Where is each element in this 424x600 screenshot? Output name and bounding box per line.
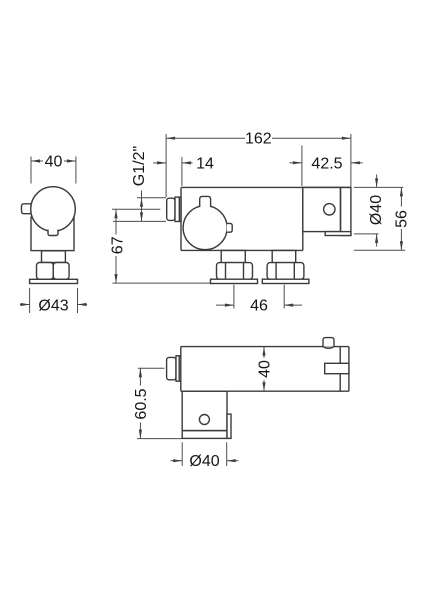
body [31,217,74,250]
dim Ø40 bottom arrows [171,459,239,462]
dim 162 extension lines [166,134,351,197]
dim 40 line and arrows [262,347,265,392]
body top edge [181,186,351,188]
body left edge [180,187,182,250]
body right inner edge [302,187,304,250]
right outlet flange [262,279,309,283]
body left edge [180,347,182,392]
dim 162 line and arrows [166,137,351,140]
handle right tab [227,223,232,232]
fitting ring [176,356,181,381]
handle top tab [200,196,211,207]
dim Ø40 bottom extension lines [182,442,227,466]
lower outlet hole [199,415,209,425]
fitting ring [175,197,181,221]
nut facet left [37,263,54,280]
right strip [341,187,351,235]
fitting cap [167,198,175,220]
right outlet nut [267,263,304,280]
handle tab left [22,204,33,214]
outlet plate hole [324,204,335,215]
dim Ø40 right arrows [375,175,378,247]
dim 56 extension line [354,249,405,251]
dim Ø43 arrows [20,303,87,306]
dim 14 arrows [153,161,193,164]
handle bottom notch [48,230,58,236]
left outlet flange [211,279,258,283]
dim 56 line and arrows [400,187,403,250]
body top edge [181,346,349,348]
svg-text:56: 56 [393,210,410,228]
handle circle [31,187,76,232]
lower outlet right tab [227,414,231,438]
dim 42.5 arrows [290,161,363,164]
nut facet right [53,263,69,280]
dim 67 line and arrows [114,209,117,283]
body right inner edge [339,347,341,392]
handle circle [183,206,227,250]
outlet plate [303,187,341,231]
svg-text:162: 162 [245,131,272,148]
dim G1/2 line and arrows [140,191,143,222]
dim 60.5 extension lines [137,368,181,438]
left outlet stem [221,250,245,262]
dim Ø43 extension lines [30,288,78,313]
stem [42,251,66,263]
svg-text:Ø40: Ø40 [368,195,385,225]
dim 46 extension lines [234,285,284,309]
right slot [325,363,349,373]
right outlet stem [272,250,296,262]
svg-text:40: 40 [257,360,274,378]
svg-text:Ø43: Ø43 [38,298,68,315]
dim 60.5 line and arrows [139,368,142,438]
dim 46 arrows [216,304,302,307]
left outlet nut [217,263,253,280]
lower outlet flange [182,431,227,439]
lower outlet box [182,391,227,430]
dim 40 extension lines [31,157,76,184]
fitting cap [167,357,176,379]
svg-text:60.5: 60.5 [133,388,150,419]
body right outer edge [348,347,350,392]
body bottom edge [181,249,303,251]
dim 40 line and arrows [31,159,76,162]
svg-text:40: 40 [45,154,63,171]
svg-text:Ø40: Ø40 [189,453,219,470]
svg-text:42.5: 42.5 [311,155,342,172]
svg-text:14: 14 [196,156,214,173]
svg-text:46: 46 [250,298,268,315]
dim 67 extension lines [112,209,210,283]
step bar [325,232,351,236]
flange [30,279,78,283]
top tab base arc [323,347,334,349]
body bottom edge [181,390,349,392]
dim G1/2 extension lines [113,198,166,222]
svg-text:G1/2": G1/2" [131,146,148,186]
top tab [323,338,334,347]
dim 14 extension line [181,157,183,186]
svg-text:67: 67 [110,236,127,254]
dim Ø40 right extension lines [354,187,404,234]
dim 42.5 extension line [301,146,303,187]
